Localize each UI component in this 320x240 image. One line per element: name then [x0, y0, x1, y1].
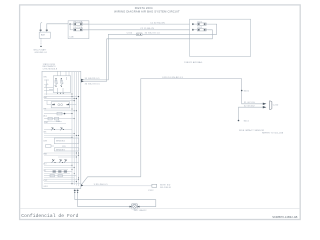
svg-text:SIS: SIS: [44, 132, 48, 134]
svg-text:31 GY-OG: 31 GY-OG: [244, 102, 255, 104]
inline connector C310 on squib1 return: [127, 33, 161, 36]
svg-text:BLT: BLT: [44, 164, 47, 166]
RCM label: [43, 64, 58, 70]
RCM internal row 3 components: [44, 117, 74, 124]
RCM internal row 2 components: [44, 112, 73, 115]
svg-text:C410 16 GN-BK 0.5: C410 16 GN-BK 0.5: [162, 77, 184, 79]
RCM internal bus lines: [72, 72, 79, 186]
RCM internal small box: [46, 145, 55, 148]
svg-text:ACC: ACC: [44, 115, 48, 118]
RCM internal K1 top contacts: [56, 78, 64, 94]
wire squib2 return loop: [107, 30, 213, 39]
svg-text:DIAG: DIAG: [56, 120, 61, 123]
RCM pin out right (lamp feed): [81, 177, 141, 187]
ground label: [34, 49, 48, 54]
RCM internal switch bank: [44, 159, 79, 163]
note text left: [160, 184, 171, 189]
svg-text:S410: S410: [244, 90, 250, 92]
wire label at RCM pin: [84, 184, 152, 186]
svg-text:DRV: DRV: [44, 141, 48, 143]
RCM internal sub-box K2: [51, 102, 69, 108]
svg-text:35 GN-RD 0.5: 35 GN-RD 0.5: [85, 78, 101, 80]
note caption: [239, 129, 284, 135]
svg-text:F32 10A: F32 10A: [74, 20, 83, 23]
wire lamp feed riser: [141, 79, 242, 177]
terminator box C312: [148, 184, 157, 192]
svg-text:C312: C312: [148, 190, 154, 192]
svg-text:SENSOR B: SENSOR B: [56, 149, 66, 151]
RCM internal sub-box K1: [53, 76, 70, 93]
svg-text:CTRL MODULE: CTRL MODULE: [43, 68, 58, 70]
wire module to diagnostic connector: [242, 79, 264, 104]
svg-text:REFER TO 501-20B: REFER TO 501-20B: [262, 133, 284, 135]
fuse F1: [70, 20, 89, 25]
squib 1 (driver): [192, 21, 208, 25]
svg-text:F34 10A: F34 10A: [74, 26, 83, 29]
footer separator line: [20, 208, 301, 210]
svg-text:CPU: CPU: [62, 146, 66, 148]
RCM internal wide box K3: [54, 138, 79, 144]
svg-text:WIRING DIAGRAM AIR BAG SYSTEM: WIRING DIAGRAM AIR BAG SYSTEM CIRCUIT: [114, 9, 180, 13]
svg-text:9 RD-WH 0.5: 9 RD-WH 0.5: [94, 184, 109, 186]
splice S410: [241, 90, 250, 93]
connector C220: [244, 101, 279, 110]
junction box (fuse box): [68, 21, 89, 39]
wire fuse F1 to module (net 30-RD): [83, 22, 190, 24]
svg-text:SIDE IMPACT SENSOR: SIDE IMPACT SENSOR: [239, 129, 264, 132]
pin arrow into RCM (squib returns): [81, 79, 84, 83]
page frame (decorative): [20, 5, 301, 220]
RCM internal pin name texts: [44, 77, 67, 188]
RCM internal junction dots: [72, 94, 80, 185]
RCM block U1: [42, 71, 81, 188]
wire fuse F2 to module (net 15-BK): [83, 28, 190, 30]
svg-text:34 GN-OG 1.0: 34 GN-OG 1.0: [145, 33, 161, 35]
squib 2 (passenger): [192, 27, 208, 31]
splice S411: [238, 120, 250, 123]
svg-text:C220: C220: [273, 105, 279, 107]
RCM internal row small boxes: [44, 175, 77, 182]
svg-text:CJB: CJB: [69, 36, 74, 38]
svg-text:SW1: SW1: [44, 97, 48, 99]
RCM internal texture wires: [44, 85, 81, 184]
svg-text:SK98B70-14B32-AB: SK98B70-14B32-AB: [272, 215, 297, 219]
air bag warning indicator L1: [130, 204, 148, 212]
svg-text:RST: RST: [44, 122, 49, 124]
RCM internal K2 link: [47, 101, 76, 105]
wire squib1 return drop: [81, 34, 136, 80]
airbag module box U2: [190, 19, 251, 56]
RCM internal driver components: [44, 171, 72, 173]
svg-text:G201: G201: [44, 186, 48, 188]
RCM internal feed stubs: [44, 71, 69, 95]
svg-text:PAS: PAS: [44, 152, 48, 155]
RCM internal wide box K4: [54, 148, 79, 151]
wire battery to fuse box: [47, 23, 68, 25]
battery B1: [39, 23, 50, 39]
RCM bottom pins: [74, 189, 79, 207]
RCM internal switches row: [44, 128, 72, 131]
svg-text:GROUND G1: GROUND G1: [35, 52, 47, 54]
svg-text:IND 19A512: IND 19A512: [134, 209, 148, 212]
RCM internal wires row 1: [44, 96, 79, 101]
title text: [114, 6, 180, 13]
wire second pin to connector: [239, 107, 264, 120]
svg-text:C2 15 BK-YE: C2 15 BK-YE: [140, 28, 154, 30]
svg-text:SENSOR A: SENSOR A: [56, 140, 66, 143]
svg-text:SQ1: SQ1: [197, 21, 202, 23]
svg-text:36 GN-OG 0.5: 36 GN-OG 0.5: [85, 84, 101, 86]
svg-text:501-20B-10: 501-20B-10: [160, 187, 171, 189]
svg-text:BAT: BAT: [41, 34, 46, 37]
wire indicator loop bottom: [78, 206, 156, 208]
wire squib1 return loop: [142, 24, 217, 34]
svg-text:32 GY-BU: 32 GY-BU: [244, 106, 255, 108]
svg-text:SQ2: SQ2: [197, 27, 202, 29]
svg-text:C1 30 RD-GN: C1 30 RD-GN: [150, 22, 165, 24]
wire squib2 return drop: [81, 39, 106, 82]
svg-text:IGN: IGN: [44, 77, 48, 79]
wire indicator loop top: [75, 200, 156, 207]
RCM internal K1 stubs: [44, 77, 67, 93]
svg-text:Confidencial de Ford: Confidencial de Ford: [21, 213, 78, 219]
node A (fuse feed): [69, 23, 70, 29]
battery ground lead (dashed): [40, 38, 42, 46]
svg-text:S411: S411: [244, 120, 250, 122]
fuse F2: [70, 26, 89, 31]
svg-text:19B021 AIR BAG: 19B021 AIR BAG: [184, 61, 202, 64]
